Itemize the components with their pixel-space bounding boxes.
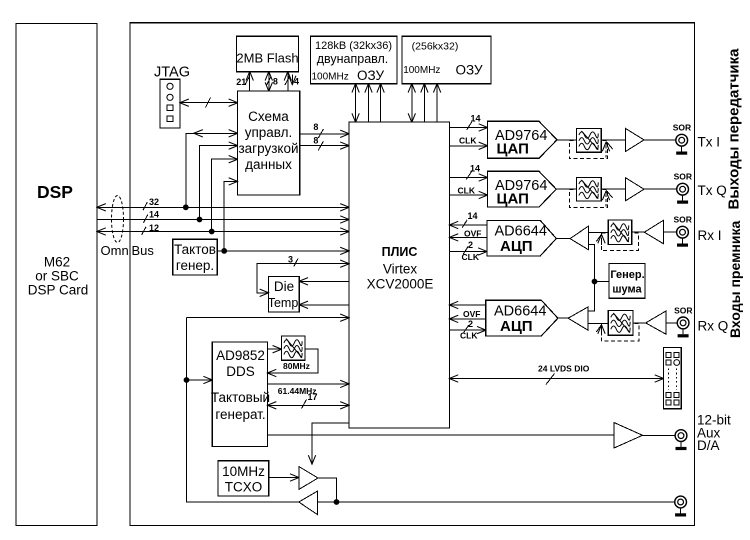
DAC U2 AD9764 (488, 171, 557, 207)
label 12 (149, 223, 159, 233)
svg-text:3: 3 (288, 255, 293, 265)
svg-text:OVF: OVF (463, 309, 480, 319)
wire reference line right segment (317, 501, 674, 503)
label 21 (236, 77, 246, 87)
ground Aux D/A (676, 442, 687, 451)
coax connector Aux D/A (675, 430, 687, 442)
ground 10MHz ref (675, 508, 686, 517)
wire DDS 61.44MHz to FPGA (268, 383, 350, 385)
amplifier Rx I inner (left) (570, 226, 589, 250)
label 4 (294, 76, 299, 86)
DSP Card label (28, 283, 89, 298)
svg-text:32: 32 (149, 197, 159, 207)
label 8 (273, 76, 278, 86)
label CLK DAC1 (459, 136, 477, 146)
wire amp to connector Aux (643, 434, 676, 436)
svg-text:ЦАП: ЦАП (497, 191, 529, 208)
wire flash address 21 (249, 72, 251, 91)
label 24 LVDS DIO (538, 364, 590, 374)
wire bus 14 DSP to FPGA (97, 219, 349, 221)
coax connector 10MHz ref (675, 496, 687, 508)
slash 14 ADC1 (462, 220, 467, 228)
wire ADC1 OVF to FPGA (449, 236, 487, 238)
svg-text:80MHz: 80MHz (283, 361, 310, 371)
wire TCXO to buffer (269, 477, 299, 479)
LVDS header connector (664, 348, 682, 409)
svg-text:100MHz: 100MHz (312, 72, 349, 83)
svg-text:17: 17 (308, 392, 318, 402)
wire FPGA clock select to buffer (312, 423, 349, 464)
wire 24 LVDS DIO (bidirectional) (449, 378, 663, 380)
wire FPGA to Die Temp lower (299, 304, 349, 306)
label 14 DAC2 (470, 163, 480, 173)
wire flash control 4 (287, 72, 289, 91)
slash 4 (285, 76, 290, 85)
svg-text:Rx I: Rx I (698, 228, 722, 243)
svg-text:управл.: управл. (245, 125, 293, 140)
amplifier Aux D/A (614, 423, 643, 449)
svg-text:4: 4 (294, 76, 299, 86)
amplifier Rx Q outer (left) (646, 311, 666, 334)
label 12-bit (697, 413, 731, 428)
wire JTAG to load-control (bidirectional) (180, 102, 238, 104)
wire DAC1 to filter (557, 139, 576, 141)
wire bus32 riser to load-control box (186, 133, 238, 207)
svg-text:Тактов: Тактов (174, 242, 216, 257)
AD9852 DDS clock synthesizer box (211, 342, 270, 447)
svg-text:14: 14 (468, 211, 478, 221)
svg-text:загрузкой: загрузкой (238, 141, 298, 156)
svg-text:8: 8 (313, 135, 318, 145)
junction dot ref node (334, 499, 340, 505)
wire SRAM2 bus a (bidirectional) (411, 84, 413, 122)
svg-text:CLK: CLK (459, 136, 477, 146)
dashed tune box Rx I filter (601, 233, 638, 251)
wire flash data 8 (bidirectional) (268, 72, 270, 91)
wire config bus 8 upper to FPGA (300, 133, 349, 135)
svg-text:ОЗУ: ОЗУ (456, 63, 484, 78)
bus width slash 32 (143, 202, 147, 210)
Omn label (101, 243, 129, 258)
label Rx I (698, 228, 722, 243)
svg-text:Тактовый: Тактовый (211, 390, 270, 405)
svg-text:21: 21 (236, 77, 246, 87)
ground Rx Q (678, 329, 689, 338)
label 2 ADC1 (468, 240, 473, 250)
svg-text:Выходы передатчика: Выходы передатчика (726, 48, 743, 210)
junction dot bus14 (197, 217, 203, 223)
amplifier Rx Q inner (left) (568, 307, 588, 330)
label 8 upper (313, 122, 318, 132)
svg-text:12: 12 (149, 223, 159, 233)
label OVF ADC1 (464, 228, 481, 238)
svg-text:SOR: SOR (674, 172, 692, 182)
svg-text:Генер.: Генер. (610, 269, 644, 281)
wire filter to amp Rx I (589, 231, 609, 233)
label CLK ADC1 (462, 252, 480, 262)
tune ar <!-- filter Tx I (576, 129, 601, 153)
DAC U1 AD9764 (488, 121, 558, 158)
junction dot noise (592, 279, 598, 285)
wire Die Temp serial 3 to FPGA (257, 264, 349, 293)
slash 8 lower (318, 141, 323, 150)
wire amp to ADC2 (558, 317, 568, 319)
label Выходы передатчика (vertical) (726, 48, 743, 210)
svg-text:JTAG: JTAG (154, 65, 190, 81)
label SOR Tx I (673, 123, 691, 133)
bus width slash 14 (144, 215, 148, 223)
svg-text:АЦП: АЦП (500, 238, 533, 255)
wire amp to ADC1 (556, 238, 570, 240)
svg-text:DDS: DDS (226, 364, 255, 379)
10MHz TCXO box (218, 461, 269, 496)
slash 14 DAC2 (466, 172, 471, 180)
label Aux (697, 426, 721, 441)
tune ar <!-- filter Tx Q (576, 177, 601, 201)
svg-text:128kB (32kx36): 128kB (32kx36) (315, 40, 392, 52)
wire bus 32 DSP to FPGA (97, 206, 349, 208)
svg-text:100MHz: 100MHz (403, 65, 440, 76)
svg-text:M62: M62 (44, 255, 70, 270)
slash 2 ADC2 (464, 325, 469, 333)
wire FPGA CLK to DAC1 (449, 145, 487, 147)
wire reference line left segment (187, 318, 299, 502)
tune ar <!-- filter Rx Q (608, 310, 633, 335)
svg-text:SOR: SOR (674, 305, 692, 315)
ground Tx I (676, 146, 687, 155)
wire ADC1 data 14 to FPGA (449, 224, 487, 226)
label Rx Q (698, 318, 729, 333)
wire DDS to 80MHz filter (268, 348, 282, 350)
arrowhead left on bidirectional riser (194, 132, 205, 134)
label Входы премника (vertical) (727, 221, 743, 338)
svg-text:Схема: Схема (248, 109, 289, 124)
wire DAC2 to filter (556, 188, 576, 190)
svg-text:14: 14 (470, 163, 480, 173)
svg-text:SOR: SOR (674, 215, 692, 225)
filter 80MHz (281, 336, 305, 360)
svg-text:двунаправл.: двунаправл. (317, 52, 389, 66)
or SBC label (35, 269, 79, 284)
svg-text:CLK: CLK (458, 185, 476, 195)
M62 label (44, 255, 70, 270)
svg-text:SOR: SOR (673, 123, 691, 133)
svg-text:24 LVDS DIO: 24 LVDS DIO (538, 364, 590, 374)
svg-text:14: 14 (471, 114, 481, 124)
ground Rx I (677, 238, 688, 247)
wire buffer out down to ref node (318, 478, 337, 502)
label 80MHz (283, 361, 310, 371)
label 32 (149, 197, 159, 207)
svg-text:ПЛИС: ПЛИС (382, 245, 418, 259)
wire 80MHz filter return to DDS (268, 349, 319, 373)
wire bus12 riser to load-control box (212, 159, 238, 231)
svg-text:Temp: Temp (268, 296, 299, 310)
tune ar <!-- filter Rx I (608, 220, 631, 245)
dashed tune box Tx Q filter (569, 190, 607, 208)
bus width slash 12 (142, 227, 146, 235)
wire config bus 8 lower to FPGA (300, 145, 349, 147)
svg-text:DSP Card: DSP Card (28, 283, 89, 298)
label Tx Q (698, 183, 727, 198)
label 17 (308, 392, 318, 402)
svg-text:Rx Q: Rx Q (698, 318, 729, 333)
junction dot DDS ref (184, 377, 190, 383)
main board outer box (130, 23, 695, 526)
svg-text:Bus: Bus (132, 243, 155, 258)
svg-text:DSP: DSP (37, 182, 73, 202)
svg-text:генер.: генер. (176, 258, 214, 273)
wire ADC2 OVF to FPGA (449, 318, 485, 320)
wire bus14 riser to load-control box (200, 146, 238, 220)
label SOR Rx I (674, 215, 692, 225)
amplifier Tx I (625, 128, 644, 151)
svg-text:2: 2 (468, 319, 473, 329)
svg-text:ЦАП: ЦАП (497, 141, 529, 158)
svg-text:14: 14 (149, 210, 159, 220)
slash 21 (245, 76, 250, 85)
wire FPGA CLK 2 to ADC1 (449, 251, 487, 253)
coax connector Rx I (677, 226, 689, 238)
wire DDS 17 bus to FPGA (bidirectional) (268, 404, 350, 406)
svg-text:АЦП: АЦП (500, 318, 533, 335)
slash 3 (294, 259, 298, 267)
slash 17 (302, 400, 307, 409)
wire clock gen to FPGA (217, 250, 349, 252)
label 8 lower (313, 135, 318, 145)
label 2 ADC2 (468, 319, 473, 329)
wire FPGA CLK to DAC2 (449, 194, 487, 196)
wire FPGA data 14 to DAC2 (449, 177, 487, 179)
svg-text:Входы премника: Входы премника (727, 221, 743, 338)
label 3 (288, 255, 293, 265)
clock generator box (173, 239, 218, 275)
wire amp to filter Rx Q (633, 322, 646, 324)
wire amp to connector Tx I (644, 139, 676, 141)
amplifier Tx Q (625, 178, 644, 201)
DSP host card box (16, 24, 97, 526)
label SOR Rx Q (674, 305, 692, 315)
wire filter to amp Tx I (601, 139, 625, 141)
ADC U3 AD6644 (487, 220, 556, 256)
svg-text:CLK: CLK (462, 252, 480, 262)
label SOR Tx Q (674, 172, 692, 182)
slash 8 (266, 76, 271, 85)
Bus label (132, 243, 155, 258)
svg-text:ОЗУ: ОЗУ (357, 68, 385, 83)
wire filter to amp Rx Q (588, 322, 608, 324)
wire reference into FPGA (187, 317, 350, 319)
coax connector Tx I (676, 134, 688, 146)
bus boundary dashed ellipse (112, 196, 124, 243)
FPGA Virtex XCV2000E box (349, 122, 449, 428)
wire amp to connector Tx Q (644, 188, 677, 190)
svg-text:8: 8 (313, 122, 318, 132)
label Tx I (698, 135, 721, 150)
small down arrow 4 (291, 75, 293, 85)
wire ref to DDS (187, 379, 213, 381)
SRAM 256kx32 box (402, 36, 491, 83)
SRAM 128kB box (311, 36, 397, 83)
ground Tx Q (677, 195, 688, 204)
svg-text:Die: Die (274, 279, 294, 294)
wire noise generator output (595, 281, 610, 283)
junction dot bus12 (209, 229, 215, 235)
label D/A (697, 438, 720, 453)
label 61.44MHz (278, 386, 317, 396)
svg-text:or SBC: or SBC (35, 269, 79, 284)
svg-text:XCV2000E: XCV2000E (367, 277, 434, 292)
slash 8 upper (318, 129, 323, 138)
svg-text:генерат.: генерат. (215, 407, 265, 422)
DSP label (37, 182, 73, 202)
buffer triangle TCXO (right) (299, 467, 318, 490)
svg-text:Tx Q: Tx Q (698, 183, 727, 198)
svg-text:Omn: Omn (101, 243, 129, 258)
wire FPGA to Die Temp upper (299, 280, 349, 282)
wire DDS aux out to Aux DAC amp (268, 434, 615, 436)
svg-text:данных: данных (245, 157, 292, 172)
wire SRAM2 bus b (423, 84, 425, 122)
svg-text:2MB Flash: 2MB Flash (236, 51, 298, 66)
wire SRAM1 bus b (368, 84, 370, 122)
svg-text:10MHz: 10MHz (222, 464, 265, 479)
label 14 DAC1 (471, 114, 481, 124)
wire noise tap to Rx I amp (588, 245, 595, 312)
label 14 ADC1 (468, 211, 478, 221)
wire amp to filter Rx I (632, 231, 645, 233)
JTAG connector (160, 79, 180, 128)
wire connector to amp Rx Q (666, 322, 677, 324)
noise generator box (609, 263, 645, 298)
label CLK ADC2 (460, 331, 478, 341)
buffer triangle reference (left) (299, 491, 318, 514)
svg-text:AD9852: AD9852 (216, 348, 265, 363)
junction dot bus32 (183, 204, 189, 210)
svg-text:Tx I: Tx I (698, 135, 721, 150)
coax connector Tx Q (677, 183, 689, 195)
ADC U4 AD6644 (486, 300, 558, 336)
wire SRAM1 bus c (380, 84, 382, 122)
amplifier Rx I outer (left) (644, 220, 663, 244)
dashed tune box Tx I filter (569, 141, 607, 159)
slash 2 ADC1 (463, 246, 468, 254)
wire ADC2 data to FPGA (449, 304, 485, 306)
slash LVDS (546, 374, 555, 385)
svg-text:CLK: CLK (460, 331, 478, 341)
wire SRAM1 bus a (bidirectional) (355, 84, 357, 122)
svg-text:Virtex: Virtex (383, 262, 418, 277)
svg-text:OVF: OVF (464, 228, 481, 238)
svg-text:D/A: D/A (697, 438, 720, 453)
wire SRAM2 bus c (436, 84, 438, 122)
label CLK DAC2 (458, 185, 476, 195)
wire connector to amp Rx I (664, 231, 677, 233)
svg-text:шума: шума (612, 284, 642, 296)
wire bus 12 DSP to FPGA (97, 231, 349, 233)
label 14 (149, 210, 159, 220)
wire clock gen riser to load-control box (224, 181, 237, 251)
wire FPGA data 14 to DAC1 (449, 127, 487, 129)
dashed tune box Rx Q filter (601, 323, 639, 341)
svg-text:(256kx32): (256kx32) (412, 41, 459, 53)
svg-text:TCXO: TCXO (225, 480, 263, 495)
wire FPGA CLK 2 to ADC2 (449, 329, 485, 331)
junction dot clock gen output (221, 248, 227, 254)
load control circuit box (238, 91, 300, 195)
JTAG label (154, 65, 190, 81)
wire filter to amp Tx Q (601, 188, 625, 190)
svg-text:2: 2 (468, 240, 473, 250)
Die Temp box (268, 277, 299, 313)
slash 14 DAC1 (467, 122, 472, 130)
coax connector Rx Q (677, 317, 689, 329)
label OVF ADC2 (463, 309, 480, 319)
svg-text:8: 8 (273, 76, 278, 86)
bus width slash JTAG (206, 98, 211, 108)
2MB Flash box (236, 36, 298, 71)
